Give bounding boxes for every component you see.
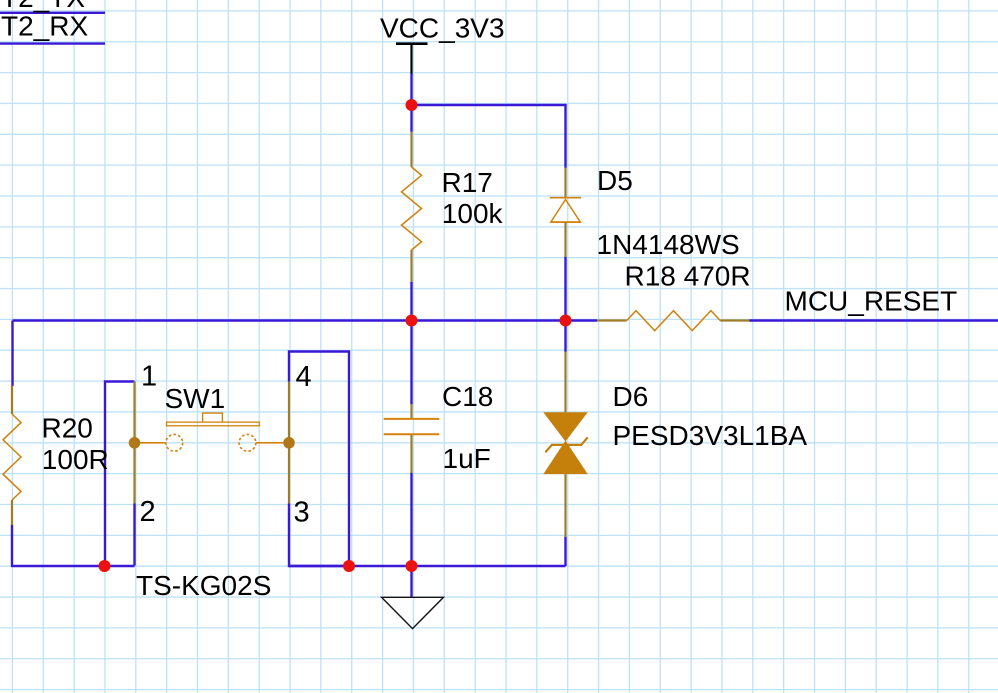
wire main bus MCU_RESET left [13,319,598,321]
svg-text:1uF: 1uF [443,443,491,474]
power port VCC_3V3 [396,44,428,75]
svg-text:1: 1 [141,361,157,393]
svg-text:VCC_3V3: VCC_3V3 [380,13,505,44]
svg-text:C18: C18 [442,381,493,412]
junction left bracket-gnd bus [99,560,111,572]
wire SW1 right bracket [289,352,349,568]
wire R17 bottom [410,282,412,322]
svg-text:T2_RX: T2_RX [1,11,88,42]
junction D5-bus node [560,315,572,327]
TVS diode D6 [543,352,587,538]
junction right bracket-gnd bus [343,560,355,572]
svg-text:2: 2 [140,496,156,528]
svg-text:R20: R20 [42,413,93,444]
wire D5 bottom [564,257,566,322]
wire left drop to R20 [11,321,13,387]
svg-text:100k: 100k [442,198,504,229]
svg-text:SW1: SW1 [165,383,226,414]
wire top branch to D5 [412,105,566,168]
wire bottom bus right segment [289,565,566,567]
wire MCU_RESET right [750,319,998,321]
wire net T2_RX [0,42,105,44]
wire bottom bus left segment [11,565,134,567]
wire R20 bottom [11,525,13,568]
svg-text:TS-KG02S: TS-KG02S [136,570,271,601]
junction VCC node [406,99,418,111]
wire SW1 left bracket [105,382,135,568]
svg-text:D6: D6 [613,381,649,412]
svg-text:1N4148WS: 1N4148WS [597,229,740,260]
wire net T2_TX [0,12,105,14]
wire ground stem [410,566,412,597]
diode D5 [550,168,581,258]
svg-text:D5: D5 [597,165,633,196]
wire VCC stem [410,74,412,106]
capacitor C18 [384,404,440,473]
svg-text:R18 470R: R18 470R [625,261,751,292]
junction C18-gnd node [406,560,418,572]
svg-text:100R: 100R [42,444,109,475]
ground symbol [382,597,444,628]
svg-text:4: 4 [296,361,312,393]
wire D6 bottom [564,537,566,567]
svg-text:PESD3V3L1BA: PESD3V3L1BA [613,420,808,451]
svg-text:3: 3 [294,497,310,529]
wire D6 top [564,321,566,353]
svg-text:MCU_RESET: MCU_RESET [785,286,958,317]
junction R17-bus node [406,315,418,327]
wire C18 bottom [410,473,412,567]
svg-text:R17: R17 [442,167,493,198]
wire SW1 pin2 tail [133,504,135,566]
wire SW1 pin3 tail [289,504,349,567]
resistor R17 [402,132,422,283]
wire R17 top [410,105,412,132]
resistor R20 [3,386,21,526]
wire C18 top [410,321,412,405]
resistor R18 [597,311,750,331]
switch SW1 [129,382,295,504]
